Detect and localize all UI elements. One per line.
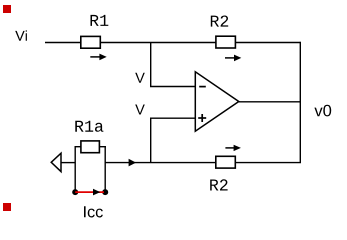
wire: port to R1a left branch (61, 162, 75, 164)
label Vi (15, 30, 27, 40)
resistor R2 (bottom) (216, 156, 236, 168)
wire: right rail vertical (299, 42, 301, 163)
wire: plus input down to bottom rail (150, 118, 152, 163)
wire: to op-amp minus input (150, 86, 195, 88)
plus sign (198, 114, 206, 122)
R1a right vertical branch (104, 146, 106, 192)
wire: R1 to R2 (top rail, through node at x=150) (100, 42, 216, 44)
R1a left stub (75, 146, 81, 148)
current arrow under R2 top (225, 55, 241, 62)
arrowhead on bottom wire (129, 159, 136, 167)
resistor R1a (81, 141, 100, 153)
R1a left vertical branch (74, 146, 76, 192)
minus sign (199, 86, 206, 88)
red marker top-left (3, 5, 11, 13)
current arrow above R2 bottom (225, 145, 241, 151)
label V minus node (135, 73, 145, 83)
wire: node down to inverting input (150, 43, 152, 87)
label Icc (84, 206, 103, 217)
wire: R2 bottom to right rail (235, 162, 301, 164)
junction dot right (102, 189, 108, 195)
resistor R2 (top) (216, 36, 236, 48)
current arrow under R1 (90, 54, 106, 61)
wire: R1a to bottom R2 (with node at x=150) (105, 162, 216, 164)
junction dot left (72, 189, 78, 195)
label v0 output (314, 105, 331, 117)
label R2 bottom (210, 179, 227, 190)
wire: Vi input to R1 (45, 42, 81, 44)
wire: to op-amp plus input (150, 117, 195, 119)
label V plus node (135, 105, 145, 115)
op-amp U1 (195, 72, 239, 131)
R1a right stub (99, 146, 106, 148)
resistor R1 (81, 36, 101, 48)
red marker bottom-left (3, 203, 11, 211)
label R1a (75, 121, 103, 132)
wire: op-amp output to right rail (239, 101, 301, 103)
Icc red current arrow (75, 189, 104, 196)
label R1 (91, 15, 109, 26)
label R2 top (211, 16, 228, 27)
wire: R2 to right rail corner (235, 42, 300, 44)
input port triangle (left) (51, 153, 61, 171)
